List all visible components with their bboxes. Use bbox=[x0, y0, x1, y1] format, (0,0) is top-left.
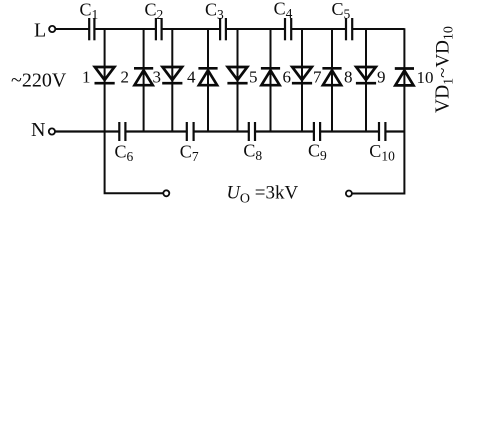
capacitor C8 bbox=[249, 122, 255, 141]
svg-text:C9: C9 bbox=[308, 141, 327, 164]
svg-text:1: 1 bbox=[82, 68, 91, 87]
wire branch 9 bbox=[365, 28, 367, 131]
svg-text:VD1~VD10: VD1~VD10 bbox=[433, 26, 457, 113]
diode VD7 bbox=[292, 67, 312, 83]
wire top rail C3 to C4 bbox=[226, 28, 285, 30]
terminal L bbox=[49, 26, 55, 32]
wire branch 5 bbox=[237, 28, 239, 131]
wire bottom rail C8 to C9 bbox=[255, 130, 314, 132]
capacitor C9 bbox=[314, 122, 320, 141]
terminal N bbox=[49, 128, 55, 134]
wire branch 6 bbox=[270, 28, 272, 131]
wire branch 8 bbox=[331, 28, 333, 131]
wire top rail C5 to corner bbox=[352, 28, 404, 30]
capacitor C7 bbox=[187, 122, 194, 141]
wire branch 4 bbox=[207, 28, 209, 131]
output terminal right bbox=[346, 191, 352, 197]
capacitor C4 bbox=[285, 18, 291, 40]
capacitor C3 bbox=[220, 18, 226, 40]
diode VD2 bbox=[134, 68, 153, 85]
wire top rail C2 to C3 bbox=[162, 28, 220, 30]
svg-text:2: 2 bbox=[121, 68, 130, 87]
wire branch 1 bbox=[104, 28, 106, 131]
wire L to C1 bbox=[56, 28, 90, 30]
wire bottom rail C6 to C7 bbox=[125, 130, 186, 132]
capacitor C5 bbox=[346, 18, 352, 40]
diode VD10 bbox=[395, 69, 414, 86]
svg-text:9: 9 bbox=[377, 68, 386, 87]
diode VD9 bbox=[356, 67, 376, 83]
svg-text:5: 5 bbox=[249, 68, 258, 87]
wire branch 2 bbox=[143, 28, 145, 131]
wire output right bbox=[352, 132, 404, 194]
wire branch 10 right edge bbox=[403, 28, 405, 131]
wire N to C6 bbox=[55, 130, 119, 132]
svg-text:C5: C5 bbox=[332, 0, 351, 22]
wire branch 7 bbox=[301, 28, 303, 131]
wire output left bbox=[105, 132, 164, 194]
wire bottom rail C10 to corner bbox=[385, 130, 404, 132]
wire bottom rail C9 to C10 bbox=[320, 130, 379, 132]
diode VD3 bbox=[162, 67, 182, 83]
svg-text:~220V: ~220V bbox=[11, 70, 67, 92]
diode VD8 bbox=[322, 68, 341, 85]
capacitor C6 bbox=[119, 122, 125, 141]
capacitor C2 bbox=[156, 18, 162, 40]
svg-text:7: 7 bbox=[313, 68, 322, 87]
diode VD4 bbox=[198, 68, 217, 85]
diode VD6 bbox=[261, 68, 280, 85]
diode VD1 bbox=[95, 67, 115, 83]
capacitor C1 bbox=[89, 18, 94, 40]
wire top rail C4 to C5 bbox=[291, 28, 346, 30]
svg-text:C8: C8 bbox=[243, 141, 262, 164]
output terminal left bbox=[163, 190, 169, 196]
svg-text:UO =3kV: UO =3kV bbox=[227, 183, 299, 207]
wire top rail C1 to C2 bbox=[94, 28, 155, 30]
wire bottom rail C7 to C8 bbox=[194, 130, 249, 132]
capacitor C10 bbox=[379, 122, 385, 141]
diode VD5 bbox=[227, 67, 247, 83]
svg-text:C2: C2 bbox=[145, 0, 164, 22]
svg-text:N: N bbox=[31, 119, 45, 141]
svg-text:C7: C7 bbox=[180, 142, 199, 165]
svg-text:C3: C3 bbox=[205, 0, 224, 22]
svg-text:10: 10 bbox=[417, 68, 434, 87]
svg-text:L: L bbox=[34, 20, 46, 42]
svg-text:6: 6 bbox=[283, 68, 292, 87]
svg-text:C4: C4 bbox=[274, 0, 293, 21]
svg-text:3: 3 bbox=[153, 68, 162, 87]
svg-text:C6: C6 bbox=[115, 142, 134, 165]
svg-text:C1: C1 bbox=[80, 0, 99, 22]
svg-text:C10: C10 bbox=[369, 141, 395, 164]
svg-text:8: 8 bbox=[344, 68, 353, 87]
wire branch 3 bbox=[171, 28, 173, 131]
svg-text:4: 4 bbox=[187, 68, 196, 87]
